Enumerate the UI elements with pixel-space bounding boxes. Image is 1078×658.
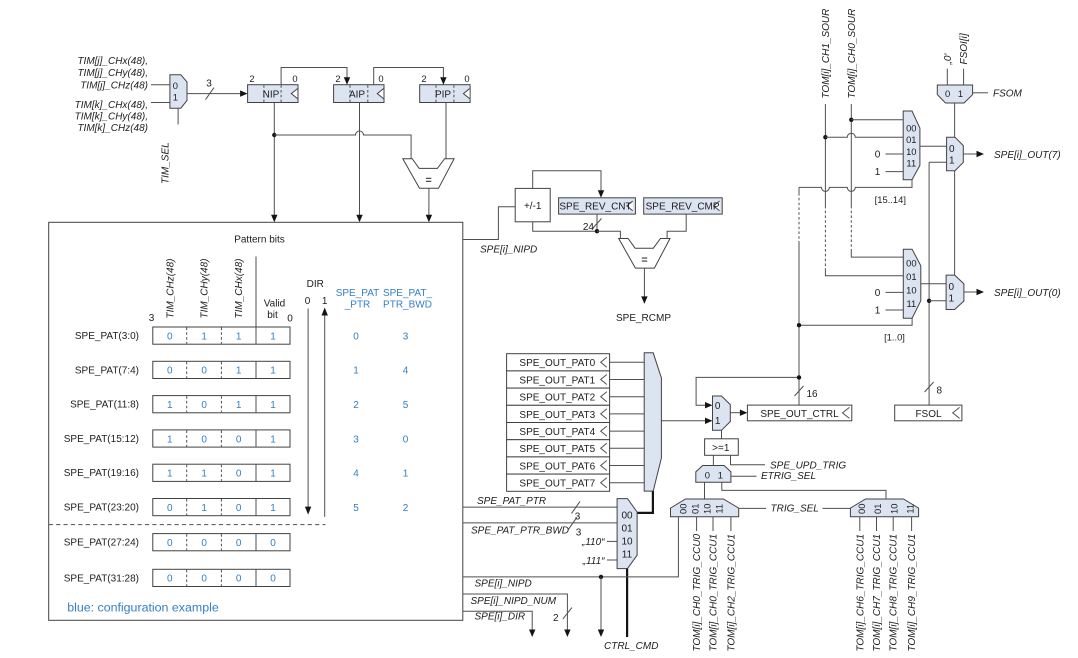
register SPE_OUT_PAT7 bbox=[507, 474, 610, 491]
register SPE_OUT_PAT2 bbox=[507, 388, 610, 405]
svg-text:TOM[i]_CH6_TRIG_CCU1: TOM[i]_CH6_TRIG_CCU1 bbox=[855, 534, 866, 652]
svg-text:0: 0 bbox=[236, 503, 242, 514]
mux out7 final (0/1) bbox=[947, 137, 964, 171]
wire DIR forward arrow (down) bbox=[305, 309, 311, 515]
register NIP bbox=[248, 73, 298, 103]
svg-text:0: 0 bbox=[875, 288, 881, 299]
svg-text:SPE_PAT(15:12): SPE_PAT(15:12) bbox=[64, 434, 139, 445]
net label TIM[j]_CHx/CHy/CHz(48) bbox=[77, 56, 148, 91]
node CH1 junction bbox=[823, 135, 827, 139]
svg-text:0: 0 bbox=[201, 366, 207, 377]
svg-text:SPE_PAT: SPE_PAT bbox=[336, 288, 380, 299]
svg-text:1: 1 bbox=[167, 469, 173, 480]
svg-text:2: 2 bbox=[335, 73, 340, 84]
node feedback junction bbox=[797, 375, 801, 379]
wire header column divider bbox=[255, 257, 257, 328]
register SPE_OUT_PAT1 bbox=[507, 371, 610, 388]
svg-text:SPE_RCMP: SPE_RCMP bbox=[616, 313, 671, 324]
node FSOL junction bbox=[927, 299, 931, 303]
wire TRIG_SEL select line bbox=[739, 507, 851, 509]
wire constant 0 to FSOM mux bbox=[946, 69, 948, 85]
svg-text:11: 11 bbox=[713, 504, 724, 514]
wire trig B input 10 stub bbox=[892, 517, 894, 531]
svg-text:24: 24 bbox=[583, 222, 595, 233]
svg-text:1: 1 bbox=[403, 469, 409, 480]
wire trig B input 01 stub bbox=[876, 517, 878, 531]
svg-text:TOM[i]_CH0_TRIG_CCU0: TOM[i]_CH0_TRIG_CCU0 bbox=[692, 533, 703, 651]
mux out7 source (00/01/10/11) bbox=[903, 111, 920, 180]
wire SPE_OUT_PAT3 to mux bbox=[610, 413, 645, 415]
wire NIP junction to comparator left input (hop over AIP line) bbox=[274, 131, 411, 159]
mux TIM_SEL (0/1) bbox=[170, 75, 187, 108]
node SPE[i]_NIPD junction bbox=[599, 575, 603, 579]
wire CTRL_CMD select (black) bbox=[626, 569, 628, 637]
svg-text:NIP: NIP bbox=[263, 89, 280, 100]
wire pattern box to +/-1 block bbox=[463, 207, 515, 240]
svg-text:00: 00 bbox=[678, 504, 689, 514]
svg-text:FSOL: FSOL bbox=[915, 409, 942, 420]
svg-text:1: 1 bbox=[167, 400, 173, 411]
svg-text:SPE_OUT_PAT4: SPE_OUT_PAT4 bbox=[519, 427, 595, 438]
svg-text:0: 0 bbox=[201, 538, 207, 549]
svg-text:TOM[i]_CH0_TRIG_CCU1: TOM[i]_CH0_TRIG_CCU1 bbox=[709, 534, 720, 652]
wire pattern mux select (from ptr mux, black) bbox=[637, 491, 653, 513]
register SPE_OUT_PAT0 bbox=[507, 354, 610, 371]
wire trig A input 11 stub bbox=[730, 517, 732, 531]
svg-text:00: 00 bbox=[621, 511, 633, 522]
wire TIM[j] group to mux input 0 bbox=[151, 84, 170, 86]
register SPE_OUT_PAT6 bbox=[507, 457, 610, 474]
svg-text:3: 3 bbox=[206, 79, 212, 90]
label PTR_BWD values column bbox=[403, 331, 409, 514]
node CH0 junction bbox=[849, 118, 853, 122]
svg-text:TIM[j]_CHx(48),: TIM[j]_CHx(48), bbox=[77, 56, 148, 67]
svg-text:0: 0 bbox=[167, 503, 173, 514]
svg-text:TIM[k]_CHz(48): TIM[k]_CHz(48) bbox=[77, 123, 148, 134]
wire SPE[i]_NIPD out of pattern box bbox=[463, 517, 679, 577]
svg-text:FSOI[i]: FSOI[i] bbox=[959, 33, 970, 64]
svg-text:SPE_OUT_PAT6: SPE_OUT_PAT6 bbox=[519, 461, 595, 472]
svg-text:10: 10 bbox=[621, 537, 633, 548]
svg-text:blue: configuration example: blue: configuration example bbox=[67, 601, 219, 615]
svg-text:2: 2 bbox=[249, 73, 254, 84]
svg-text:TOM[i]_CH2_TRIG_CCU1: TOM[i]_CH2_TRIG_CCU1 bbox=[726, 534, 737, 652]
wire pattern mux output to update mux input 1 bbox=[661, 418, 712, 424]
svg-text:00: 00 bbox=[856, 504, 867, 514]
svg-text:1: 1 bbox=[270, 366, 276, 377]
svg-text:SPE_OUT_CTRL: SPE_OUT_CTRL bbox=[760, 409, 839, 420]
svg-text:Valid: Valid bbox=[264, 299, 286, 310]
wire SPE_OUT_CTRL feedback to update mux input 0 bbox=[696, 377, 799, 408]
svg-text:SPE_PAT_: SPE_PAT_ bbox=[383, 288, 433, 299]
svg-text:1: 1 bbox=[322, 296, 328, 307]
svg-text:1: 1 bbox=[201, 331, 207, 342]
wire SPE_PAT_PTR_BWD with bus slash 3 bbox=[463, 517, 617, 538]
svg-text:1: 1 bbox=[201, 469, 207, 480]
wire SPE_REV_CMP to rev comparator right input bbox=[667, 214, 686, 238]
node NIP output junction bbox=[272, 133, 276, 137]
svg-text:0: 0 bbox=[287, 314, 293, 325]
svg-text:SPE_OUT_PAT2: SPE_OUT_PAT2 bbox=[519, 393, 595, 404]
label PTR values column bbox=[353, 331, 359, 514]
svg-text:_PTR: _PTR bbox=[344, 300, 371, 311]
svg-text:TIM[j]_CHz(48): TIM[j]_CHz(48) bbox=[80, 80, 148, 91]
svg-text:0: 0 bbox=[201, 400, 207, 411]
svg-text:SPE[i]_DIR: SPE[i]_DIR bbox=[475, 612, 526, 623]
wire TOM[i]_CH0_SOUR vertical (solid then dashed) bbox=[851, 104, 903, 257]
register SPE_REV_CMP bbox=[644, 198, 723, 214]
svg-text:PTR_BWD: PTR_BWD bbox=[383, 300, 432, 311]
comparator U= (NIP/PIP equal) bbox=[403, 159, 454, 189]
wire TOM[i]_CH1_SOUR vertical (solid then dashed) bbox=[825, 104, 903, 276]
wire ETRIG_SEL select bbox=[731, 475, 757, 477]
wire mux15 output to out7 final mux input 0 bbox=[920, 145, 947, 147]
wire SPE_OUT_PAT7 to mux bbox=[610, 482, 645, 484]
net label TIM[k]_CHx/CHy/CHz(48) bbox=[75, 100, 148, 134]
wire junction to rev comparator left input bbox=[597, 231, 620, 238]
svg-text:01: 01 bbox=[689, 504, 700, 514]
wire SPE[i]_NIPD_NUM with bus slash 2 bbox=[463, 594, 572, 637]
wire SPE_OUT_PAT2 to mux bbox=[610, 396, 645, 398]
wire TIM[k] group to mux input 1 bbox=[151, 102, 170, 104]
svg-text:SPE_PAT(27:24): SPE_PAT(27:24) bbox=[64, 538, 139, 549]
mux ETRIG (0/1) bbox=[696, 466, 731, 483]
wire AIP down to pattern box bbox=[356, 103, 362, 223]
wire SPE[i]_OUT(7) output arrow bbox=[963, 151, 984, 157]
svg-text:10: 10 bbox=[889, 504, 900, 514]
wire trig mux B output to ETRIG input 1 bbox=[722, 482, 886, 498]
wire FSOM mux output down to out7 mux select bbox=[954, 103, 956, 137]
register SPE_REV_CNT bbox=[559, 198, 636, 214]
svg-text:TIM[j]_CHy(48),: TIM[j]_CHy(48), bbox=[77, 68, 148, 79]
svg-text:SPE[i]_NIPD_NUM: SPE[i]_NIPD_NUM bbox=[471, 596, 557, 607]
svg-text:TIM_CHy(48): TIM_CHy(48) bbox=[200, 258, 211, 318]
svg-text:SPE_OUT_PAT7: SPE_OUT_PAT7 bbox=[519, 479, 595, 490]
block +/-1 incrementer/decrementer bbox=[515, 188, 550, 221]
svg-text:SPE_UPD_TRIG: SPE_UPD_TRIG bbox=[770, 460, 846, 471]
svg-text:2: 2 bbox=[353, 400, 359, 411]
svg-text:8: 8 bbox=[937, 386, 943, 397]
wire trig B input 00 stub bbox=[859, 517, 861, 531]
svg-text:„0‘: „0‘ bbox=[943, 53, 954, 66]
svg-text:SPE[i]_OUT(0): SPE[i]_OUT(0) bbox=[994, 288, 1061, 299]
svg-text:DIR: DIR bbox=[307, 279, 324, 290]
svg-text:TIM_CHx(48): TIM_CHx(48) bbox=[234, 258, 245, 318]
mux out0 source (00/01/10/11) bbox=[903, 249, 921, 318]
svg-text:1: 1 bbox=[236, 400, 242, 411]
pattern row 4 cells bbox=[153, 430, 290, 447]
svg-text:[1..0]: [1..0] bbox=[884, 332, 905, 343]
wire NIP down to pattern box bbox=[271, 103, 277, 223]
pattern row 3 cells bbox=[153, 396, 290, 413]
svg-text:SPE_PAT_PTR_BWD: SPE_PAT_PTR_BWD bbox=[471, 525, 569, 536]
svg-text:0: 0 bbox=[236, 434, 242, 445]
wire SPE[i]_DIR bbox=[463, 611, 536, 637]
svg-text:TOM[i]_CH8_TRIG_CCU1: TOM[i]_CH8_TRIG_CCU1 bbox=[889, 534, 900, 652]
pattern row 7 cells bbox=[153, 534, 290, 551]
wire rev comparator output SPE_RCMP bbox=[641, 268, 647, 304]
svg-text:SPE_OUT_PAT1: SPE_OUT_PAT1 bbox=[519, 375, 595, 386]
label SPE_PAT_ PTR_BWD column header bbox=[383, 288, 433, 311]
wire update mux output to SPE_OUT_CTRL bbox=[730, 410, 747, 416]
wire FSOI[i] to FSOM mux bbox=[963, 69, 965, 85]
svg-text:00: 00 bbox=[906, 257, 916, 268]
register SPE_OUT_PAT4 bbox=[507, 423, 610, 440]
wire DIR backward arrow (up) bbox=[322, 308, 328, 517]
wire trig A input 01 stub bbox=[696, 517, 698, 531]
wire CH0 to out7 mux input 00 bbox=[851, 119, 903, 121]
svg-text:10: 10 bbox=[701, 504, 712, 514]
svg-text:SPE_PAT_PTR: SPE_PAT_PTR bbox=[477, 496, 546, 507]
wire FSOM select bbox=[973, 92, 988, 94]
svg-text:Pattern bits: Pattern bits bbox=[234, 234, 285, 245]
svg-text:16: 16 bbox=[807, 389, 819, 400]
svg-text:SPE[i]_OUT(7): SPE[i]_OUT(7) bbox=[994, 150, 1061, 161]
svg-text:3: 3 bbox=[149, 313, 155, 324]
constant 0 for out0 mux bbox=[875, 288, 904, 299]
svg-text:SPE_PAT(11:8): SPE_PAT(11:8) bbox=[70, 400, 139, 411]
svg-text:0: 0 bbox=[270, 538, 276, 549]
svg-text:1: 1 bbox=[949, 155, 955, 166]
wire SPE[i]_NIPD down arrow bbox=[598, 577, 604, 637]
wire FSOL to out0 mux input 1 bbox=[929, 300, 946, 302]
node select [1..0] junction bbox=[797, 323, 801, 327]
mux trigger select A (00/01/10/11) bbox=[671, 499, 739, 517]
svg-text:ETRIG_SEL: ETRIG_SEL bbox=[761, 471, 816, 482]
svg-text:0: 0 bbox=[201, 574, 207, 585]
svg-text:SPE_OUT_PAT3: SPE_OUT_PAT3 bbox=[519, 410, 595, 421]
svg-text:SPE_REV_CMP: SPE_REV_CMP bbox=[646, 202, 720, 213]
svg-text:0: 0 bbox=[464, 73, 469, 84]
svg-text:3: 3 bbox=[353, 434, 359, 445]
svg-text:01: 01 bbox=[621, 524, 633, 535]
svg-text:[15..14]: [15..14] bbox=[875, 194, 906, 205]
wire +/-1 to SPE_REV_CNT load bbox=[533, 171, 605, 198]
svg-text:1: 1 bbox=[353, 366, 359, 377]
pattern row 5 cells bbox=[153, 464, 290, 481]
wire out7 select through to out0 select bbox=[954, 171, 956, 275]
svg-text:1: 1 bbox=[715, 416, 721, 427]
svg-text:1: 1 bbox=[173, 91, 178, 102]
wire trig mux A output to ETRIG input 0 bbox=[704, 482, 706, 499]
svg-text:SPE_REV_CNT: SPE_REV_CNT bbox=[559, 202, 631, 213]
svg-text:SPE_PAT(23:20): SPE_PAT(23:20) bbox=[64, 503, 139, 514]
block Pattern bits frame bbox=[49, 222, 463, 620]
svg-text:01: 01 bbox=[906, 134, 916, 145]
svg-text:1: 1 bbox=[875, 306, 881, 317]
svg-text:1: 1 bbox=[270, 469, 276, 480]
wire SPE_OUT_PAT4 to mux bbox=[610, 430, 645, 432]
svg-text:1: 1 bbox=[875, 167, 881, 178]
svg-text:1: 1 bbox=[949, 293, 955, 304]
wire TIM_SEL select stub bbox=[177, 108, 179, 124]
wire +/-1 feedback from counter bbox=[533, 222, 597, 231]
svg-text:SPE_PAT(31:28): SPE_PAT(31:28) bbox=[64, 573, 139, 584]
register SPE_OUT_PAT5 bbox=[507, 440, 610, 457]
comparator U= (rev count equal) bbox=[619, 239, 670, 269]
svg-text:0: 0 bbox=[875, 150, 881, 161]
svg-text:0: 0 bbox=[705, 469, 710, 480]
svg-text:2: 2 bbox=[553, 613, 559, 624]
svg-text:SPE_OUT_PAT0: SPE_OUT_PAT0 bbox=[519, 358, 595, 369]
wire NIP to AIP load bbox=[281, 68, 350, 85]
svg-text:2: 2 bbox=[421, 73, 426, 84]
svg-text:0: 0 bbox=[167, 574, 173, 585]
svg-text:4: 4 bbox=[353, 469, 359, 480]
wire CH1 to out7 mux input 01 (hop over CH0) bbox=[825, 133, 903, 137]
constant 1 for out7 mux bbox=[875, 167, 903, 178]
svg-text:0: 0 bbox=[270, 574, 276, 585]
svg-text:1: 1 bbox=[270, 503, 276, 514]
svg-text:„111“: „111“ bbox=[582, 556, 606, 567]
wire FSOL bus slash 8 bbox=[925, 382, 943, 397]
mux trigger select B (00/01/10/11) bbox=[850, 499, 918, 517]
svg-text:0: 0 bbox=[949, 144, 955, 155]
wire mux output to NIP with bus slash 3 bbox=[187, 79, 248, 100]
constant „110“ bbox=[581, 537, 617, 548]
svg-text:SPE[i]_NIPD: SPE[i]_NIPD bbox=[475, 579, 532, 590]
wire comparator output to pattern box bbox=[426, 188, 432, 222]
svg-text:11: 11 bbox=[905, 504, 916, 514]
constant 1 for out0 mux bbox=[875, 306, 904, 317]
mux FSOM (0/1) bbox=[937, 85, 972, 103]
svg-text:1: 1 bbox=[236, 331, 242, 342]
wire trig A input 10 stub bbox=[712, 517, 714, 531]
svg-text:0: 0 bbox=[945, 88, 950, 99]
svg-text:0: 0 bbox=[236, 574, 242, 585]
mux update (0/1) bbox=[713, 396, 731, 430]
svg-text:0: 0 bbox=[236, 538, 242, 549]
svg-text:11: 11 bbox=[907, 298, 917, 309]
wire SPE[i]_OUT(0) output arrow bbox=[964, 289, 984, 295]
svg-text:11: 11 bbox=[906, 157, 916, 168]
pattern row 8 cells bbox=[153, 569, 290, 586]
pattern row 6 cells bbox=[153, 499, 290, 516]
svg-text:TIM_SEL: TIM_SEL bbox=[161, 142, 172, 184]
svg-text:01: 01 bbox=[906, 271, 916, 282]
svg-text:11: 11 bbox=[622, 550, 633, 561]
svg-text:AIP: AIP bbox=[349, 89, 365, 100]
svg-text:0: 0 bbox=[305, 296, 311, 307]
pattern row 2 cells bbox=[153, 361, 290, 378]
svg-text:0: 0 bbox=[167, 366, 173, 377]
svg-text:3: 3 bbox=[575, 512, 581, 523]
svg-text:00: 00 bbox=[906, 123, 916, 134]
constant 0 for out7 mux bbox=[875, 150, 903, 161]
svg-text:TOM[i]_CH1_SOUR: TOM[i]_CH1_SOUR bbox=[821, 9, 832, 99]
svg-text:1: 1 bbox=[270, 331, 276, 342]
svg-text:0: 0 bbox=[167, 538, 173, 549]
mux out0 final (0/1) bbox=[946, 275, 964, 309]
register AIP bbox=[334, 73, 384, 103]
wire ETRIG mux output to OR input bbox=[712, 455, 714, 465]
svg-text:1: 1 bbox=[958, 88, 963, 99]
svg-text:0: 0 bbox=[715, 401, 721, 412]
svg-text:1: 1 bbox=[201, 503, 207, 514]
svg-text:+/-1: +/-1 bbox=[524, 201, 542, 212]
mux pattern selector (8 to 1) bbox=[644, 353, 661, 491]
wire out0 input 0 from [1..0] mux bbox=[921, 283, 946, 285]
node SPE_REV_CNT output junction bbox=[595, 229, 599, 233]
svg-text:>=1: >=1 bbox=[712, 443, 730, 454]
mux pattern pointer selector (00/01/10/11) bbox=[617, 499, 637, 569]
svg-text:1: 1 bbox=[236, 366, 242, 377]
register FSOL bbox=[895, 405, 962, 421]
svg-text:PIP: PIP bbox=[435, 89, 451, 100]
wire SPE_OUT_PAT5 to mux bbox=[610, 447, 645, 449]
wire SPE_OUT_PAT6 to mux bbox=[610, 465, 645, 467]
wire SPE_OUT_PAT0 to mux bbox=[610, 361, 645, 363]
svg-text:1: 1 bbox=[167, 434, 173, 445]
constant „111“ bbox=[582, 556, 617, 567]
svg-text:0: 0 bbox=[353, 331, 359, 342]
wire trig B input 11 stub bbox=[911, 517, 913, 531]
svg-text:0: 0 bbox=[173, 80, 178, 91]
svg-text:3: 3 bbox=[403, 331, 409, 342]
svg-text:2: 2 bbox=[403, 503, 409, 514]
svg-text:TOM[i]_CH9_TRIG_CCU1: TOM[i]_CH9_TRIG_CCU1 bbox=[907, 534, 918, 652]
svg-text:3: 3 bbox=[576, 527, 582, 538]
svg-text:TIM_CHz(48): TIM_CHz(48) bbox=[165, 258, 176, 318]
svg-text:0: 0 bbox=[167, 331, 173, 342]
svg-text:TOM[i]_CH0_SOUR: TOM[i]_CH0_SOUR bbox=[847, 9, 858, 99]
svg-text:5: 5 bbox=[403, 400, 409, 411]
svg-text:SPE_PAT(7:4): SPE_PAT(7:4) bbox=[75, 365, 139, 376]
svg-text:1: 1 bbox=[718, 469, 723, 480]
svg-text:1: 1 bbox=[270, 434, 276, 445]
svg-text:SPE_PAT(3:0): SPE_PAT(3:0) bbox=[75, 331, 139, 342]
svg-text:SPE[i]_NIPD: SPE[i]_NIPD bbox=[480, 245, 537, 256]
svg-text:0: 0 bbox=[236, 469, 242, 480]
register SPE_OUT_CTRL bbox=[747, 405, 851, 421]
svg-text:0: 0 bbox=[403, 434, 409, 445]
svg-text:TIM[k]_CHy(48),: TIM[k]_CHy(48), bbox=[75, 111, 148, 122]
wire SPE_PAT_PTR with bus slash 3 bbox=[463, 501, 617, 522]
svg-text:bit: bit bbox=[267, 310, 278, 321]
svg-text:0: 0 bbox=[292, 73, 297, 84]
svg-text:5: 5 bbox=[353, 503, 359, 514]
svg-text:4: 4 bbox=[403, 366, 409, 377]
register PIP bbox=[420, 73, 470, 103]
wire AIP to PIP load bbox=[374, 68, 447, 85]
svg-text:TOM[i]_CH7_TRIG_CCU1: TOM[i]_CH7_TRIG_CCU1 bbox=[872, 534, 883, 652]
label SPE_PAT _PTR column header bbox=[336, 288, 380, 311]
wire SPE_OUT_PAT1 to mux bbox=[610, 379, 645, 381]
pattern row 1 cells bbox=[153, 327, 290, 344]
svg-text:CTRL_CMD: CTRL_CMD bbox=[604, 641, 658, 652]
svg-text:SPE_OUT_PAT5: SPE_OUT_PAT5 bbox=[519, 444, 595, 455]
svg-text:0: 0 bbox=[378, 73, 383, 84]
wire SPE_OUT_CTRL bus vertical (solid-dashed-solid) bbox=[798, 187, 800, 405]
wire update mux select from OR gate bbox=[721, 430, 723, 439]
svg-text:1: 1 bbox=[270, 400, 276, 411]
wire FSOL bus to out muxes input 1 bbox=[929, 162, 947, 405]
wire out7 mux select [15..14] (hops over CH1/CH0) bbox=[799, 180, 912, 192]
wire SPE_UPD_TRIG to OR input bbox=[731, 455, 766, 464]
wire out0 mux select [1..0] bbox=[799, 318, 912, 325]
label Valid bit bbox=[264, 299, 286, 322]
svg-text:TRIG_SEL: TRIG_SEL bbox=[771, 503, 819, 514]
svg-text:10: 10 bbox=[906, 284, 916, 295]
wire PIP down to comparator right input bbox=[445, 103, 447, 159]
svg-text:„110“: „110“ bbox=[581, 537, 605, 548]
register SPE_OUT_PAT3 bbox=[507, 405, 610, 422]
wire SPE_REV_CNT output down with bus slash 24 bbox=[583, 214, 602, 233]
svg-text:0: 0 bbox=[201, 434, 207, 445]
svg-text:FSOM: FSOM bbox=[993, 89, 1023, 100]
svg-text:TIM[k]_CHx(48),: TIM[k]_CHx(48), bbox=[75, 100, 148, 111]
svg-text:01: 01 bbox=[872, 504, 883, 514]
